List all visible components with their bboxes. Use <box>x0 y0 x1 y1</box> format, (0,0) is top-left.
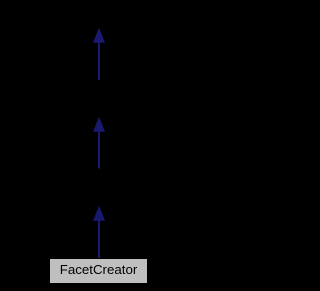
inheritance arrow edges <box>0 0 197 291</box>
wire arrow 3 head <box>93 207 104 221</box>
node FacetCreator <box>49 258 148 284</box>
wire arrow 2 head <box>93 118 104 132</box>
wire arrow 1 head <box>93 29 104 43</box>
wire arrow 2 shaft <box>98 131 100 169</box>
wire arrow 3 shaft <box>98 220 100 259</box>
wire arrow 1 shaft <box>98 42 100 81</box>
